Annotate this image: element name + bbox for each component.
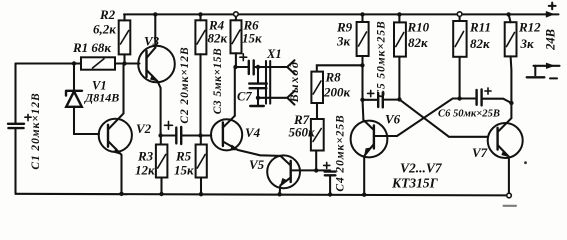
svg-text:С2 20мк×12В: С2 20мк×12В bbox=[179, 46, 191, 123]
node R7 / C4 / V5 base bbox=[314, 168, 318, 172]
svg-text:V7: V7 bbox=[472, 145, 488, 160]
resistor R7 bbox=[311, 119, 324, 151]
wire top supply rail bbox=[124, 13, 559, 15]
transistor V3 bbox=[138, 46, 175, 83]
resistor R1 bbox=[81, 57, 115, 69]
transistor V5 bbox=[267, 155, 300, 188]
svg-text:82к: 82к bbox=[208, 31, 228, 46]
connector X1 body lines bbox=[266, 61, 270, 104]
node rail end open circle bbox=[507, 193, 512, 198]
svg-text:24В: 24В bbox=[544, 29, 558, 51]
node V2 emitter on rail bbox=[119, 192, 123, 196]
svg-text:V3: V3 bbox=[144, 34, 160, 49]
resistor R5 bbox=[200, 136, 202, 195]
wire bottom common rail bbox=[16, 194, 510, 196]
svg-text:С4 20мк×25В: С4 20мк×25В bbox=[335, 114, 347, 191]
svg-text:V4: V4 bbox=[245, 125, 261, 140]
svg-text:С7: С7 bbox=[237, 90, 252, 104]
node C5 / R10 bbox=[397, 97, 401, 101]
svg-text:R1 68к: R1 68к bbox=[72, 40, 111, 55]
svg-text:V2...V7: V2...V7 bbox=[400, 161, 443, 176]
node C3 junction bbox=[233, 65, 237, 69]
transistor V7 bbox=[488, 123, 523, 158]
svg-text:3к: 3к bbox=[520, 36, 535, 51]
resistor R11 bbox=[459, 16, 461, 98]
svg-text:6,2к: 6,2к bbox=[93, 22, 116, 37]
node R2 bottom junction bbox=[122, 61, 126, 65]
svg-text:R2: R2 bbox=[99, 7, 116, 22]
svg-text:Д814В: Д814В bbox=[84, 91, 119, 105]
node C2 / R4 / R5 / V4 base bbox=[198, 133, 202, 137]
minus sign bbox=[550, 77, 557, 79]
svg-text:560к: 560к bbox=[289, 125, 316, 140]
svg-text:R11: R11 bbox=[469, 20, 491, 35]
resistor R12 bbox=[509, 14, 512, 103]
diode V1 zener bbox=[73, 64, 75, 91]
svg-text:82к: 82к bbox=[408, 35, 428, 50]
node V3 collector on rail bbox=[153, 12, 157, 16]
transistor V4 bbox=[201, 134, 212, 136]
terminal +24V arrow bbox=[546, 11, 555, 18]
node C6 / V7 collector bbox=[509, 101, 513, 105]
svg-text:R5: R5 bbox=[175, 149, 192, 164]
capacitor C5 bbox=[363, 99, 400, 101]
capacitor C2 bbox=[165, 121, 173, 129]
svg-text:V6: V6 bbox=[385, 112, 401, 127]
node R1 left junction bbox=[72, 61, 76, 65]
capacitor C4 bbox=[316, 170, 330, 194]
svg-text:R3: R3 bbox=[137, 149, 154, 164]
ground chassis under C7 bbox=[257, 98, 259, 105]
svg-text:КТ315Г: КТ315Г bbox=[391, 176, 439, 191]
svg-text:Выход: Выход bbox=[287, 61, 301, 104]
resistor R6 bbox=[235, 16, 237, 67]
svg-text:С3 5мк×15В: С3 5мк×15В bbox=[212, 48, 224, 114]
noise dot bbox=[524, 161, 527, 164]
resistor R4 bbox=[199, 14, 201, 135]
capacitor C7 bbox=[257, 67, 259, 98]
resistor R9 bbox=[361, 14, 363, 99]
svg-text:82к: 82к bbox=[470, 36, 490, 51]
capacitor C3 bbox=[236, 66, 288, 68]
svg-text:R10: R10 bbox=[407, 20, 430, 35]
wire left vertical rail bbox=[14, 64, 16, 194]
resistor R8 bbox=[317, 65, 363, 119]
transistor V2 bbox=[99, 119, 132, 152]
wire base feed horizontal bbox=[16, 62, 82, 64]
svg-text:3к: 3к bbox=[336, 34, 351, 49]
capacitor C6 bbox=[460, 99, 512, 104]
node C7 bottom bbox=[256, 96, 260, 100]
svg-text:R8: R8 bbox=[325, 70, 342, 85]
node R11 top open circle bbox=[457, 12, 462, 17]
terminal minus arrow bbox=[546, 63, 555, 69]
node V3 emitter / R3 / C2 junction bbox=[158, 133, 162, 137]
transistor V6 bbox=[351, 121, 388, 158]
svg-text:R12: R12 bbox=[518, 20, 541, 35]
resistor R3 bbox=[160, 136, 163, 195]
wire R1 to V3 base bbox=[115, 62, 140, 64]
svg-text:X1: X1 bbox=[266, 47, 282, 61]
svg-text:С1 20мк×12В: С1 20мк×12В bbox=[30, 92, 42, 169]
capacitor C1 bbox=[8, 124, 24, 128]
svg-text:200к: 200к bbox=[323, 85, 351, 100]
node C7 top bbox=[256, 65, 260, 69]
svg-text:С5 50мк×25В: С5 50мк×25В bbox=[376, 20, 388, 97]
svg-text:15к: 15к bbox=[174, 163, 194, 178]
svg-text:15к: 15к bbox=[242, 31, 262, 46]
svg-text:V5: V5 bbox=[249, 157, 265, 172]
wire cross diagonal to V7 base bbox=[399, 99, 487, 136]
svg-text:R9: R9 bbox=[336, 20, 353, 35]
node R11 bottom / C6 bbox=[457, 96, 461, 100]
wire cross diagonal from V6 base bbox=[397, 99, 460, 137]
connector X1 upper pin bbox=[287, 60, 294, 74]
svg-text:С6 50мк×25В: С6 50мк×25В bbox=[438, 109, 500, 120]
wire minus drop bbox=[534, 66, 536, 75]
resistor R2 bbox=[123, 14, 125, 63]
node R6 top open circle bbox=[234, 12, 239, 17]
resistor R10 bbox=[398, 14, 400, 99]
svg-text:12к: 12к bbox=[135, 163, 155, 178]
ground chassis bar bbox=[527, 76, 545, 78]
connector X1 lower pin bbox=[258, 91, 295, 105]
svg-text:V2: V2 bbox=[136, 121, 152, 136]
node V6 collector / C5 bbox=[360, 98, 364, 102]
